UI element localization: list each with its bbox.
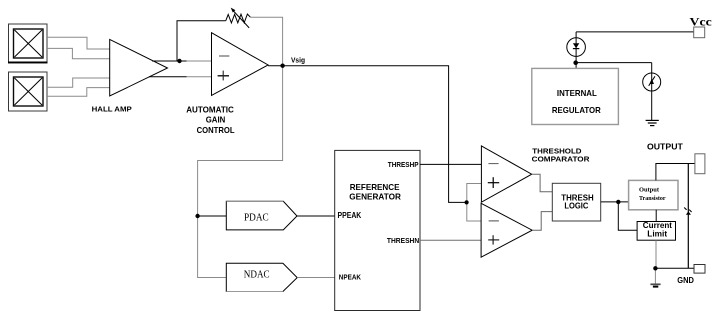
svg-text:HALL AMP: HALL AMP <box>92 105 132 114</box>
svg-text:GAIN: GAIN <box>206 115 226 125</box>
svg-text:OUTPUT: OUTPUT <box>647 142 683 151</box>
svg-text:PPEAK: PPEAK <box>338 211 362 220</box>
svg-text:INTERNAL: INTERNAL <box>557 88 597 98</box>
svg-text:THRESHP: THRESHP <box>388 160 419 169</box>
svg-text:GENERATOR: GENERATOR <box>349 193 401 202</box>
svg-text:REFERENCE: REFERENCE <box>350 183 400 192</box>
svg-text:LOGIC: LOGIC <box>564 201 588 211</box>
svg-text:AUTOMATIC: AUTOMATIC <box>186 105 234 115</box>
svg-text:CONTROL: CONTROL <box>197 125 235 135</box>
svg-text:COMPARATOR: COMPARATOR <box>532 154 590 163</box>
svg-text:Vcc: Vcc <box>690 16 712 28</box>
svg-text:NPEAK: NPEAK <box>339 273 362 282</box>
svg-text:PDAC: PDAC <box>244 213 269 224</box>
svg-text:GND: GND <box>677 276 694 285</box>
svg-text:Output: Output <box>639 186 660 193</box>
svg-text:Limit: Limit <box>647 230 667 239</box>
svg-text:REGULATOR: REGULATOR <box>552 105 601 115</box>
svg-text:Vsig: Vsig <box>291 55 305 64</box>
svg-text:THRESHN: THRESHN <box>387 236 420 245</box>
svg-text:NDAC: NDAC <box>244 269 270 280</box>
svg-text:Transistor: Transistor <box>639 195 666 202</box>
